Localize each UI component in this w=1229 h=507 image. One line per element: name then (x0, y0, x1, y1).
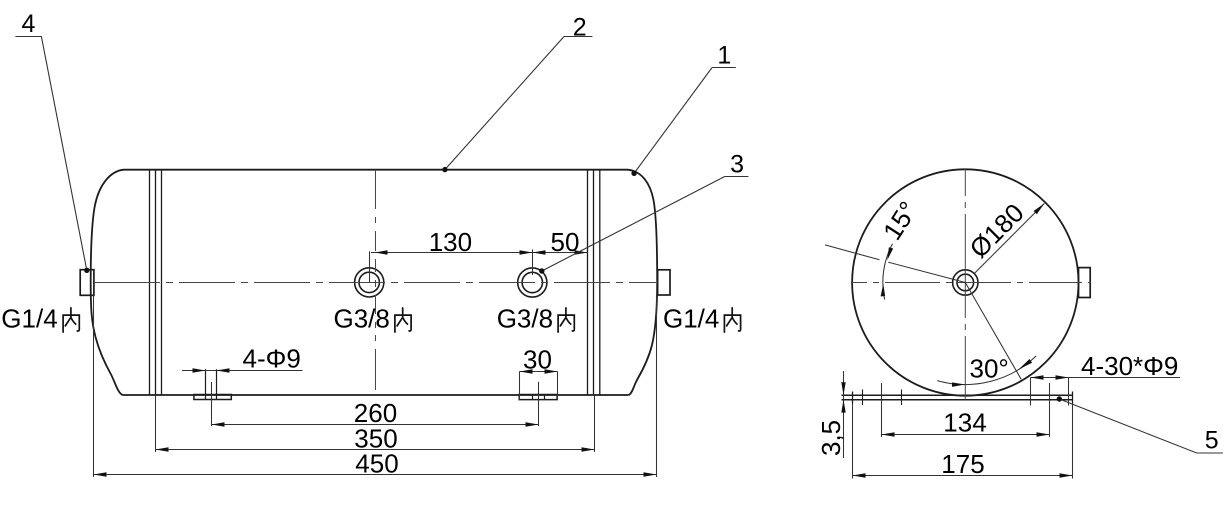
end view circle (852, 169, 1078, 395)
center port outer circle (953, 270, 978, 295)
side port boss (end view) (1079, 268, 1091, 298)
svg-text:5: 5 (1205, 426, 1219, 454)
svg-text:450: 450 (355, 448, 398, 478)
dim line 450 (94, 474, 657, 476)
svg-text:3: 3 (730, 151, 744, 179)
svg-text:G3/8: G3/8 (334, 304, 390, 334)
ext line port1 (369, 251, 371, 282)
foot 2 base plate (519, 395, 557, 400)
arrows 260 (212, 422, 225, 426)
callout dots (84, 268, 89, 273)
dim line 4-30phi9 (1031, 377, 1181, 379)
horizontal centerline of tank (94, 282, 656, 284)
left weld seam lines (150, 170, 162, 395)
svg-text:1: 1 (717, 42, 731, 70)
ext 134 right (pair center) (1049, 383, 1051, 437)
callout 1 leader (634, 68, 736, 174)
arrows 3,5 (outside) (841, 382, 845, 395)
dim line 134 (882, 434, 1050, 436)
ext 450 left (93, 295, 95, 477)
ext lines 30 (foot2) (520, 372, 558, 400)
svg-text:G3/8: G3/8 (497, 304, 553, 334)
tank shell top edge (124, 169, 629, 171)
glyph nei (left G1/4) (63, 308, 79, 332)
ext 450 right (656, 295, 658, 477)
dim line 175 (853, 475, 1073, 477)
arrows 450 (94, 472, 107, 476)
arrows 15 deg arc (881, 284, 886, 297)
center port inner circle (957, 274, 974, 291)
dim line 50 (533, 252, 588, 254)
svg-text:G1/4: G1/4 (1, 304, 57, 334)
ext 175 left (852, 404, 854, 479)
arrow dia180 tip on circle (1034, 203, 1045, 214)
vertical centerline end view (964, 169, 966, 399)
dim line 260 (212, 424, 539, 426)
arrows 350 (156, 447, 169, 451)
tank right head (628, 170, 657, 395)
dim line 350 (156, 449, 595, 451)
svg-text:50: 50 (551, 227, 580, 257)
ext 350 left (155, 395, 157, 452)
30 degree dim arc (937, 356, 1036, 385)
foot 2 hole lines (533, 395, 545, 400)
arrows 30 deg arc (952, 382, 965, 387)
dim line 130 (371, 252, 533, 254)
glyph nei (mid-left G3/8) (395, 308, 411, 332)
15 degree dim arc (883, 244, 893, 300)
foot 1 hole lines (206, 369, 217, 399)
vertical centerline of tank (375, 170, 377, 390)
svg-text:175: 175 (941, 449, 984, 479)
foot 1 base plate (194, 395, 231, 400)
svg-text:2: 2 (573, 14, 587, 42)
left port boss (80, 270, 94, 296)
ext 134 left (pair center) (881, 383, 883, 437)
arrows 175 (853, 473, 866, 477)
svg-text:4: 4 (22, 10, 36, 38)
RIGHT VIEW (842, 169, 1091, 405)
mounting plate bottom line (842, 399, 1074, 401)
arrows 30 (520, 369, 533, 373)
ext 350 right (594, 395, 596, 452)
svg-text:30: 30 (523, 344, 552, 374)
svg-text:3,5: 3,5 (816, 420, 846, 456)
ext line port2 (532, 249, 534, 275)
svg-text:G1/4: G1/4 (663, 304, 719, 334)
glyph nei (right G1/4) (724, 308, 740, 332)
dim line 3,5 vertical (843, 371, 845, 458)
dim line 30 (520, 371, 558, 373)
foot 1 centerline / ext 260 left (211, 382, 213, 426)
callout 3 leader (542, 177, 749, 272)
ext lines 4-30phi9 (1031, 378, 1069, 406)
tank shell bottom edge (123, 394, 629, 396)
plate left edge (852, 392, 854, 404)
dia180 leader line (974, 203, 1044, 273)
plate right edge (1072, 392, 1074, 404)
right weld seam lines (588, 170, 600, 395)
foot 2 centerline / ext 260 right (538, 382, 540, 426)
callout 4 leader (15, 37, 86, 271)
ext 175 right (1072, 404, 1074, 479)
svg-text:134: 134 (943, 408, 986, 438)
right port boss (658, 270, 670, 295)
arrows 134 (882, 432, 895, 436)
SIDE VIEW (80, 170, 670, 400)
svg-text:4-30*Φ9: 4-30*Φ9 (1081, 351, 1178, 381)
svg-text:Ø180: Ø180 (964, 198, 1030, 264)
arrows 130 (375, 250, 388, 254)
port circle 2 (518, 268, 547, 297)
arrows 4-30phi9 (1031, 375, 1044, 379)
30 degree line (965, 283, 1021, 380)
callout 2 leader (445, 37, 593, 170)
arrows 4-phi9 (outside) (193, 368, 206, 372)
arrows 50 (533, 250, 546, 254)
callout 5 dot (1057, 396, 1062, 401)
15 degree line (825, 245, 965, 283)
dim line 4-phi9 (182, 370, 303, 372)
port circle 1 (355, 268, 384, 297)
tank left head (91, 170, 124, 395)
plate hole ticks (863, 390, 902, 406)
svg-text:30°: 30° (970, 354, 1009, 384)
svg-text:130: 130 (429, 227, 472, 257)
callout 5 leader (1059, 399, 1223, 453)
svg-text:4-Φ9: 4-Φ9 (243, 344, 301, 374)
glyph nei (mid-right G3/8) (558, 308, 574, 332)
horizontal centerline end view (852, 282, 1091, 284)
mounting plate top line (842, 394, 1074, 396)
